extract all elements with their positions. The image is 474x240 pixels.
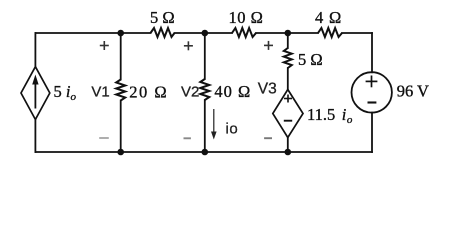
svg-text:5 Ω: 5 Ω — [150, 8, 175, 27]
svg-text:io: io — [226, 121, 239, 138]
svg-text:40 Ω: 40 Ω — [214, 82, 251, 101]
svg-text:96 V: 96 V — [397, 81, 429, 100]
svg-text:10 Ω: 10 Ω — [229, 8, 264, 27]
svg-text:5 Ω: 5 Ω — [298, 50, 323, 69]
svg-text:V3: V3 — [258, 80, 277, 97]
svg-text:4 Ω: 4 Ω — [315, 8, 342, 27]
svg-text:11.5io: 11.5io — [307, 105, 353, 126]
svg-text:V2: V2 — [181, 83, 199, 100]
svg-text:V1: V1 — [91, 83, 109, 100]
svg-text:20 Ω: 20 Ω — [129, 83, 168, 102]
